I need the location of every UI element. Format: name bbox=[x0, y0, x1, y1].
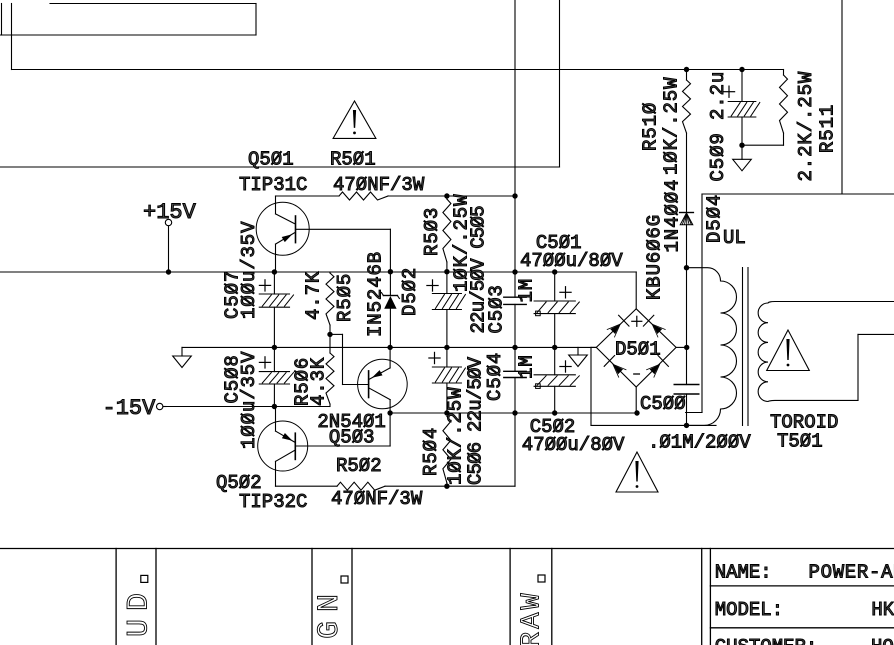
svg-text:D5Ø2: D5Ø2 bbox=[399, 267, 421, 316]
svg-text:C5ØØ: C5ØØ bbox=[640, 393, 686, 415]
svg-text:R5Ø4: R5Ø4 bbox=[420, 427, 442, 476]
svg-text:POWER-AM: POWER-AM bbox=[809, 562, 894, 584]
svg-text:47ØØu/8ØV: 47ØØu/8ØV bbox=[522, 434, 625, 456]
svg-text:C5Ø9 2.2u: C5Ø9 2.2u bbox=[707, 71, 729, 182]
svg-text:R5Ø2: R5Ø2 bbox=[336, 455, 382, 477]
svg-text:UL: UL bbox=[723, 227, 746, 249]
svg-text:1M: 1M bbox=[516, 278, 538, 303]
svg-text:2.2K/.25W: 2.2K/.25W bbox=[795, 71, 817, 182]
svg-text:R511: R511 bbox=[817, 104, 839, 153]
svg-text:Q5Ø3: Q5Ø3 bbox=[329, 427, 375, 449]
svg-text:CUSTOMER:: CUSTOMER: bbox=[715, 636, 818, 645]
svg-text:HOL: HOL bbox=[871, 636, 894, 645]
svg-text:47ØØu/8ØV: 47ØØu/8ØV bbox=[520, 250, 623, 272]
svg-text:TIP32C: TIP32C bbox=[239, 491, 307, 513]
svg-text:1ØØu/35V: 1ØØu/35V bbox=[238, 351, 260, 449]
svg-text:47ØNF/3W: 47ØNF/3W bbox=[333, 174, 425, 196]
svg-text:+15V: +15V bbox=[143, 200, 197, 225]
svg-text:MODEL:: MODEL: bbox=[715, 599, 783, 621]
svg-text:R5Ø1: R5Ø1 bbox=[330, 149, 376, 171]
svg-text:IN5246B: IN5246B bbox=[365, 251, 387, 337]
svg-text:R5Ø5: R5Ø5 bbox=[334, 273, 356, 322]
svg-text:NAME:: NAME: bbox=[715, 562, 772, 584]
svg-text:4.3K: 4.3K bbox=[308, 357, 330, 406]
svg-text:47ØNF/3W: 47ØNF/3W bbox=[331, 488, 423, 510]
svg-text:Q5Ø1: Q5Ø1 bbox=[248, 149, 294, 171]
svg-text:KBU6Ø6G: KBU6Ø6G bbox=[644, 214, 666, 300]
svg-text:C5Ø6 22u/5ØV: C5Ø6 22u/5ØV bbox=[464, 356, 486, 485]
svg-text:1ØK/.25W: 1ØK/.25W bbox=[661, 77, 683, 175]
svg-text:4.7K: 4.7K bbox=[303, 271, 325, 320]
svg-text:R51Ø: R51Ø bbox=[640, 102, 662, 151]
svg-text:C5Ø4: C5Ø4 bbox=[484, 352, 506, 401]
svg-text:1ØØu/35V: 1ØØu/35V bbox=[238, 221, 260, 319]
svg-text:D5Ø1: D5Ø1 bbox=[615, 339, 661, 361]
svg-text:TIP31C: TIP31C bbox=[239, 174, 307, 196]
svg-text:HK: HK bbox=[871, 599, 894, 621]
svg-text:-15V: -15V bbox=[103, 396, 157, 421]
svg-text:T5Ø1: T5Ø1 bbox=[777, 431, 823, 453]
svg-text:OUD: OUD bbox=[123, 585, 157, 645]
svg-text:1ØK/.25W: 1ØK/.25W bbox=[445, 387, 467, 485]
svg-text:.Ø1M/2ØØV: .Ø1M/2ØØV bbox=[648, 432, 751, 454]
svg-text:IGN: IGN bbox=[313, 585, 347, 645]
svg-text:C5Ø3: C5Ø3 bbox=[486, 284, 508, 333]
svg-text:RAW: RAW bbox=[518, 590, 548, 645]
svg-text:R5Ø3: R5Ø3 bbox=[421, 207, 443, 256]
